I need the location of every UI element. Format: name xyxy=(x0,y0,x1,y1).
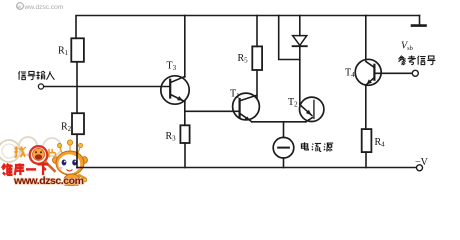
resistor R3 xyxy=(180,125,189,143)
transistor T1 xyxy=(233,93,260,122)
logo www.dzsc.com text xyxy=(13,175,84,187)
label 信号输入 (signal input) xyxy=(18,71,54,80)
wire current source to bottom rail xyxy=(283,158,285,168)
resistor R4 xyxy=(362,129,372,152)
wire emitter rail T1-T2 xyxy=(252,121,306,123)
label 参考信号 (reference signal) xyxy=(398,55,435,65)
wire T1 base line xyxy=(185,110,240,112)
wire T4 collector xyxy=(365,16,367,61)
wire R1 bottom to input node to R2 xyxy=(76,62,78,113)
svg-text:w: w xyxy=(16,4,21,10)
transistor T4 xyxy=(355,59,381,85)
svg-text:T3: T3 xyxy=(167,61,177,73)
logo mascot xyxy=(53,140,88,188)
transistor T3 xyxy=(161,76,189,104)
resistor R1 xyxy=(71,38,84,62)
watermark www.dzsc.com top-left xyxy=(16,3,64,11)
resistor R2 xyxy=(72,113,84,134)
-V terminal xyxy=(417,165,423,171)
wire R5 top xyxy=(256,16,258,47)
wire R2 to bottom rail xyxy=(76,134,78,167)
output terminal xyxy=(412,70,418,76)
logo weiku-yixia red text xyxy=(3,163,49,175)
wire current source top xyxy=(283,122,285,138)
svg-text:Vsb: Vsb xyxy=(401,41,413,53)
svg-text:−V: −V xyxy=(415,157,429,168)
input terminal xyxy=(38,84,43,89)
svg-text:www.dzsc.com: www.dzsc.com xyxy=(13,175,84,186)
wire signal input line xyxy=(44,86,170,88)
logo magnifier chip cartoon xyxy=(30,146,56,172)
label 电流源 (current source) xyxy=(301,142,333,151)
transistor T2 xyxy=(300,97,324,122)
wire top supply rail xyxy=(76,16,420,39)
wire T4 base to output terminal xyxy=(374,72,412,74)
+V terminal top right xyxy=(412,16,426,26)
svg-text:R2: R2 xyxy=(61,122,72,134)
wire bottom rail xyxy=(77,167,420,169)
logo stamp circles xyxy=(0,137,61,162)
wire diode cathode to T2 xyxy=(299,46,301,105)
svg-text:T4: T4 xyxy=(345,68,355,80)
svg-text:R5: R5 xyxy=(238,53,249,65)
wire T4 emitter to R4 xyxy=(365,85,367,129)
wire T3 collector to top rail xyxy=(184,16,186,78)
svg-text:T1: T1 xyxy=(230,88,240,100)
diode D1 xyxy=(293,36,307,47)
resistor R5 xyxy=(252,46,262,70)
current source xyxy=(273,137,294,158)
svg-text:R4: R4 xyxy=(375,137,386,149)
logo zhao-pian text xyxy=(14,146,55,157)
svg-text:R3: R3 xyxy=(166,131,177,143)
wire R5 to T1 collector xyxy=(256,70,258,98)
wire T3 emitter down xyxy=(184,101,186,125)
svg-text:ww.dzsc.com: ww.dzsc.com xyxy=(24,4,64,11)
wire R4 to bottom rail xyxy=(365,152,367,167)
wire diode anode xyxy=(299,16,301,36)
wire bypass branch xyxy=(279,16,300,60)
svg-text:T2: T2 xyxy=(288,97,298,109)
wire R3 to bottom rail xyxy=(184,143,186,168)
logo group xyxy=(0,137,88,187)
svg-text:R1: R1 xyxy=(58,46,69,58)
